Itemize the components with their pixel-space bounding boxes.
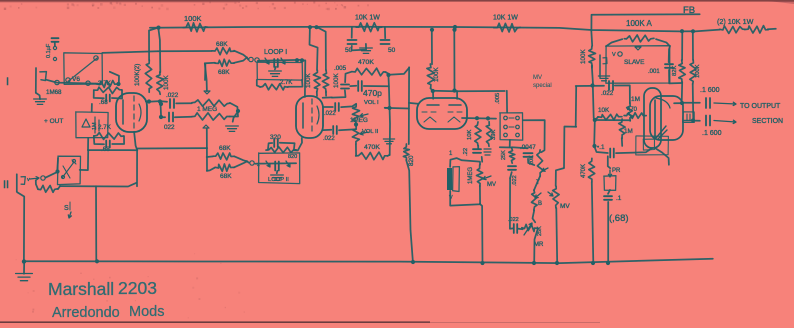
triode V2 cathode arc (317, 106, 319, 124)
wire 68K join right (234, 51, 247, 58)
svg-text:10K 1W: 10K 1W (493, 15, 518, 22)
svg-text:1M68: 1M68 (46, 89, 62, 96)
ground decoupling (360, 48, 373, 53)
loop II box (259, 153, 300, 184)
wire bus drop V3b (453, 30, 455, 89)
svg-text:100K: 100K (163, 74, 170, 90)
svg-text:470K: 470K (358, 59, 374, 66)
node PI grid (593, 118, 597, 122)
triode V2 (296, 96, 323, 138)
wire box right (523, 120, 545, 152)
svg-text:820: 820 (408, 155, 415, 166)
switch dots (509, 118, 514, 127)
wire treble to bass (534, 176, 540, 190)
svg-text:1 MEG: 1 MEG (197, 106, 217, 113)
capacitor .022 upper (170, 99, 174, 108)
wire net II down (95, 186, 97, 261)
wire pr down (608, 190, 610, 194)
wire ch2 left rail (137, 147, 207, 149)
resistor 25K slope (509, 148, 515, 163)
capacitor 1n bars (687, 114, 690, 121)
resistor 820 V3 (403, 144, 409, 160)
svg-text:2.7K: 2.7K (280, 80, 292, 86)
wire mv down (480, 204, 483, 263)
wire resistor tail (768, 28, 776, 30)
svg-text:.022: .022 (601, 90, 614, 97)
wire res II r (58, 186, 60, 189)
wire bus drop V2a (310, 27, 318, 70)
wire cap leads3 (94, 136, 104, 144)
capacitor .005 (341, 85, 349, 89)
wire screen node (351, 27, 353, 38)
svg-text:10K: 10K (467, 130, 473, 140)
node bus junction (430, 28, 434, 32)
relay K2 contact (62, 176, 65, 179)
wire pot right join (230, 103, 238, 117)
wire 68K join right b (234, 57, 247, 62)
wire cap to vol2 (339, 129, 356, 130)
svg-text:(2) 10K 1W: (2) 10K 1W (717, 17, 754, 26)
capacitor .1 600V a (706, 98, 710, 108)
node gnd bus MV (555, 261, 559, 265)
wire MV riser (564, 127, 576, 168)
svg-text:Mods: Mods (129, 304, 164, 320)
tube socket inner (643, 139, 654, 150)
resistor 470 PI (624, 113, 646, 119)
potentiometer treble 20K (537, 150, 543, 176)
svg-text:100K: 100K (333, 72, 340, 88)
loop I switch v (265, 58, 269, 64)
node V3b (452, 88, 456, 92)
node bus junction (680, 29, 684, 33)
ground vol II (383, 139, 394, 144)
ground input I (34, 99, 47, 104)
switch contact (53, 57, 56, 60)
component box 1n (683, 112, 695, 123)
potentiometer 1MEG gain b (192, 113, 230, 120)
wire bus drop b (158, 28, 160, 72)
wire V1 bottom to ch2 (134, 132, 137, 150)
wire 022 left lead (510, 178, 513, 229)
label tick (69, 202, 71, 210)
resistor 100K V2 plate b (322, 70, 329, 92)
node gnd bus mv1 (480, 261, 484, 265)
resistor 10K 1W b (745, 26, 768, 33)
resistor 82K PI plate (679, 60, 686, 82)
wire 68k lead b (207, 168, 215, 171)
resistor 470K tail (588, 158, 594, 182)
svg-text:1M: 1M (92, 122, 98, 130)
wire wiper up (205, 63, 207, 91)
wire out rect top (88, 149, 137, 151)
node V1a plate (147, 99, 151, 103)
wire nfb down2 (593, 85, 595, 120)
wire to loop II (247, 161, 249, 163)
wire bus drop V2b (317, 27, 326, 70)
potentiometer VOL I 1MEG (352, 104, 359, 124)
svg-text:68K: 68K (219, 145, 231, 152)
switch contact L (504, 133, 508, 137)
svg-text:820: 820 (288, 154, 297, 160)
wire loop I (258, 59, 300, 62)
svg-text:.1 600: .1 600 (702, 130, 722, 137)
capacitor .022 PI (609, 81, 613, 90)
capacitor .1 600V b (706, 116, 710, 126)
potentiometer VOL II (352, 126, 359, 144)
node V3 plate (431, 89, 435, 93)
arrow down (68, 212, 71, 218)
relay contact arm (68, 58, 97, 81)
wire mix rail (388, 75, 390, 155)
wire jack II arrow (30, 177, 39, 180)
wire vol node (355, 124, 357, 126)
node bus junction (314, 25, 318, 29)
svg-text:+ OUT: + OUT (44, 118, 63, 125)
arrow to output b (714, 120, 736, 123)
svg-text:LOOP I: LOOP I (264, 49, 287, 56)
wire .001 down (669, 70, 682, 83)
svg-text:S: S (64, 205, 69, 212)
capacitor 320p (274, 139, 278, 147)
resistor 68K gain (215, 59, 234, 66)
svg-text:PR: PR (612, 168, 621, 174)
triode V4 plate bar (654, 100, 656, 138)
node gnd bus pres (606, 261, 610, 265)
wire sw bottom (450, 186, 480, 206)
wire bypass left (257, 80, 260, 87)
wire cap to vol (341, 104, 356, 107)
wire wiper rail (385, 107, 389, 109)
wire V2 plate in (316, 92, 318, 96)
wire v2 plate to cap (323, 106, 333, 108)
wire plate a down (681, 82, 684, 103)
wire nfb down (592, 66, 593, 86)
capacitor .022 slope (508, 166, 516, 170)
loop II contact (250, 161, 254, 165)
wire FB line (592, 13, 700, 16)
node cap split (159, 102, 163, 106)
svg-text:470p: 470p (363, 88, 382, 98)
wire cap to gnd (351, 44, 366, 51)
MV2 wiper (548, 192, 553, 196)
wire B+ bus (150, 27, 695, 32)
svg-text:.022: .022 (324, 111, 336, 117)
wire mid to bus (534, 229, 538, 263)
wire ground bus (24, 259, 713, 263)
FET switch box (76, 112, 108, 138)
triode V4 slashes (656, 126, 667, 139)
resistor 68K bright (212, 48, 234, 55)
wire .005 stem (345, 72, 352, 83)
wire slave right (669, 46, 670, 62)
resistor 68K ch2a (213, 153, 234, 160)
wire 820 to bus (406, 160, 413, 262)
potentiometer PR (604, 176, 616, 191)
ground loop I (269, 71, 282, 76)
wire sw top (450, 158, 480, 167)
wire 1m down (621, 138, 623, 146)
svg-text:.001: .001 (648, 69, 660, 75)
svg-text:100K: 100K (695, 64, 701, 78)
wire slope down (510, 172, 512, 178)
svg-text:100K: 100K (305, 72, 312, 88)
potentiometer middle 25K (522, 224, 538, 231)
node V1a plate b (158, 99, 162, 103)
wire jack II gnd (17, 192, 24, 261)
wire tail cap (594, 146, 608, 153)
wire tail cap out (616, 148, 652, 153)
svg-text:•.1: •.1 (597, 144, 605, 151)
wire cap b lead (161, 116, 165, 118)
resistor 68K ch2b (215, 164, 234, 171)
wire plate node (146, 100, 167, 103)
wire res II (36, 180, 38, 189)
resistor 100K V2 plate a (313, 70, 320, 92)
svg-text:10K 1W: 10K 1W (355, 15, 380, 22)
jack slave tip (603, 58, 607, 64)
paper grain speckles (92, 5, 94, 7)
capacitor .1 tail (610, 149, 614, 158)
capacitor 470p (358, 81, 362, 91)
bass wiper (535, 193, 541, 198)
wire 68k lead a (207, 155, 213, 158)
triode V3 cathode arcs (424, 117, 460, 122)
svg-text:68K: 68K (218, 69, 230, 76)
node VOL junction (354, 122, 358, 126)
resistor 470K top (352, 68, 386, 76)
svg-text:TO OUTPUT: TO OUTPUT (740, 103, 781, 110)
node bus junction (453, 25, 457, 29)
triode V1 grid dashes (133, 96, 135, 128)
potentiometer 100K A (624, 35, 654, 42)
wire plate into tube (432, 91, 434, 99)
wire loop II cap stem (276, 171, 279, 173)
wire grid to10k (595, 117, 598, 120)
wire plate rail (433, 90, 505, 93)
slave contact (618, 52, 622, 56)
wire loop II (255, 162, 296, 164)
wire bypass right (288, 80, 303, 87)
capacitor .022 lower (169, 113, 173, 122)
switch contact R (516, 116, 520, 120)
node mix right (386, 73, 390, 77)
wire tail (593, 120, 596, 146)
wire .005 down (332, 90, 346, 97)
resistor 10K 1W (356, 23, 382, 32)
node bus junction (156, 26, 160, 30)
FET symbol (82, 117, 99, 133)
wire out rect bottom (60, 183, 136, 187)
wire MV top (556, 168, 564, 186)
VOL I wiper (360, 114, 368, 117)
capacitor .022 V2a (335, 103, 339, 111)
wire 68K to loop (247, 58, 248, 60)
arrow to output a (714, 102, 736, 105)
resistor 100K V3 plate (427, 64, 434, 88)
svg-text:special: special (533, 83, 552, 89)
node bus junction (691, 29, 695, 33)
wire cap leads2 (112, 90, 122, 98)
slave wiper (635, 47, 641, 50)
svg-text:022: 022 (164, 124, 175, 131)
wire tail to bus (592, 182, 594, 263)
triode V1 (116, 93, 147, 132)
svg-text:68K: 68K (216, 41, 228, 48)
wire FB riser (590, 15, 592, 31)
svg-text:MV: MV (533, 75, 542, 81)
rotary switch box (500, 113, 523, 140)
triode V1 cathode arc (139, 104, 141, 121)
wire slave drop (591, 66, 593, 68)
wire bus drop V3a (431, 30, 433, 65)
wire cath down (481, 157, 484, 162)
ground loop II (271, 175, 284, 180)
node gnd bus 820 (411, 260, 415, 264)
wire cath join (477, 146, 479, 149)
svg-text:100K A: 100K A (626, 19, 652, 28)
svg-text:82K: 82K (672, 66, 678, 76)
svg-text:1M: 1M (624, 128, 633, 135)
wire socket (655, 148, 669, 165)
wire bus drop to plate R (149, 28, 159, 61)
svg-text:.022: .022 (166, 92, 179, 99)
VOL II wiper (360, 132, 368, 135)
node loop I out2 (300, 58, 304, 62)
wire 470p right (364, 85, 389, 87)
node gnd bus tail (591, 261, 595, 265)
svg-text:2.7K: 2.7K (98, 80, 112, 87)
wire to V3 (389, 68, 410, 75)
node PI plate a (680, 101, 684, 105)
wire jack II (45, 172, 57, 178)
node contact II (41, 176, 45, 180)
svg-text:SECTION: SECTION (752, 118, 783, 125)
wire cap down (528, 159, 534, 165)
wire loop cap stem (275, 67, 276, 70)
resistor 820 II (38, 185, 58, 192)
node cathode b (486, 116, 490, 120)
wire 470p left (350, 85, 356, 87)
svg-text:100K: 100K (433, 66, 440, 82)
wire plate into tube b (456, 91, 458, 99)
triode V4 cathode arc (656, 98, 670, 108)
potentiometer bass (532, 190, 538, 210)
resistor 100K plate a (145, 60, 152, 92)
capacitor 50uF (381, 40, 390, 44)
resistor 100K NFB (589, 46, 596, 66)
jack II sleeve (16, 174, 18, 192)
wire plate b down (692, 84, 695, 121)
wire stack node (500, 146, 512, 148)
MV wiper (483, 176, 491, 180)
loop I jack contact b (255, 58, 259, 62)
svg-text:.022: .022 (323, 136, 335, 142)
svg-text:I: I (6, 76, 9, 88)
ground gain pot (226, 126, 239, 131)
wire out b (693, 120, 700, 122)
wire plate to caps (160, 102, 161, 117)
wire cap leads4 (112, 136, 124, 144)
capacitor .22 cathode (473, 149, 481, 153)
resistor 2.7K loop bypass (260, 84, 288, 90)
switch contact R (516, 133, 520, 137)
svg-text:II: II (3, 179, 9, 191)
wire mid chain (533, 210, 536, 222)
svg-text:.22: .22 (463, 148, 469, 156)
switch body (453, 167, 460, 192)
resistor 1M PI b (619, 119, 625, 138)
ground main (16, 274, 33, 281)
wire riser up (575, 86, 578, 127)
wire out rect right (136, 150, 138, 186)
wire gnd stem (23, 261, 25, 273)
wire V2 plate b down (325, 92, 327, 96)
wire v2b to cap (323, 129, 331, 131)
svg-text:Arredondo: Arredondo (52, 305, 120, 321)
jack I tip contact (40, 72, 47, 81)
wire cap out (176, 102, 192, 104)
pot wiper arrow a (204, 91, 210, 94)
node bus left corner (22, 259, 26, 263)
triode V4 inner structure (650, 96, 683, 140)
wire MV to bus (555, 208, 558, 263)
relay K2 box (58, 156, 81, 184)
wire jack I to grid (46, 80, 98, 84)
capacitor .022 V2b (333, 126, 337, 134)
paper bottom edge shadow (0, 321, 430, 323)
node cathode a (475, 116, 479, 120)
svg-text:10K: 10K (598, 107, 610, 114)
svg-text:2.7K: 2.7K (98, 124, 112, 131)
node grid I (116, 82, 120, 86)
wire cath to tube (294, 138, 302, 151)
wire box bottom (87, 138, 89, 150)
svg-text:.1 600: .1 600 (700, 87, 720, 94)
capacitor .0047 (524, 153, 533, 157)
wire grid node (595, 119, 630, 122)
loop I switch v2 (281, 58, 285, 64)
svg-text:VOL II: VOL II (362, 129, 379, 135)
capacitor loop I (274, 59, 278, 67)
svg-text:1M: 1M (631, 96, 640, 103)
resistor 2.7K cathode2 (94, 133, 124, 140)
wire out a (682, 102, 700, 104)
wire to tube grid2 (323, 96, 332, 98)
wire screen node b (384, 27, 386, 38)
node rail out (387, 106, 391, 110)
jack II tip (21, 177, 25, 185)
node pot right (236, 109, 240, 113)
pot wiper arrow b (203, 125, 209, 128)
potentiometer 1MEG MV (477, 165, 484, 187)
svg-text:.005: .005 (495, 93, 501, 104)
wire tube plate a (674, 102, 682, 104)
node tail (592, 144, 596, 148)
wire 022 right lead (518, 228, 523, 231)
resistor 10K 1W (second) (494, 23, 521, 32)
resistor 1M PI grid (627, 103, 633, 121)
capacitor 50uF (348, 40, 357, 44)
wire box II to net (80, 150, 89, 170)
svg-text:320: 320 (270, 134, 281, 141)
svg-text:LOOP II: LOOP II (268, 177, 289, 183)
wire volII to 470K (355, 144, 357, 156)
resistor 100K PI plate (690, 60, 696, 84)
wire cap lower out (175, 116, 192, 119)
svg-text:.005: .005 (334, 65, 347, 72)
wire nfb (590, 31, 593, 46)
node nfb (590, 83, 594, 87)
